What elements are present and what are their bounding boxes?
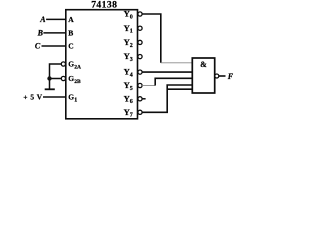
svg-text:2: 2 — [130, 43, 133, 49]
wire Y7 step to gate — [142, 85, 192, 112]
svg-text:0: 0 — [130, 14, 133, 20]
wire G2B to junction — [50, 78, 62, 80]
wire Y4 to gate — [142, 71, 192, 73]
wire A — [46, 18, 66, 20]
NAND gate U2 body — [192, 58, 214, 93]
svg-text:&: & — [200, 60, 207, 69]
wire Y0 to gate vertical — [142, 14, 161, 63]
pin Y6 bubble — [138, 97, 142, 101]
wire junction to ground — [49, 79, 51, 89]
svg-text:1: 1 — [130, 29, 133, 35]
svg-text:2B: 2B — [74, 79, 81, 85]
svg-text:1: 1 — [74, 97, 77, 103]
wire Y5 jog to gate — [155, 78, 192, 85]
svg-text:4: 4 — [130, 73, 133, 79]
pin Y7 bubble — [138, 110, 142, 114]
gate output bubble — [215, 74, 219, 78]
svg-text:74138: 74138 — [91, 0, 117, 11]
pin Y0 bubble — [138, 12, 142, 16]
pin G2B bubble — [61, 76, 65, 80]
wire G2A to junction — [50, 64, 62, 79]
stub Y6 — [142, 98, 146, 100]
svg-text:A: A — [39, 15, 46, 24]
ground bar — [45, 88, 55, 90]
svg-text:5: 5 — [130, 86, 133, 92]
wire Y0 thin tail to gate — [161, 62, 193, 64]
pin Y1 bubble — [138, 26, 142, 30]
svg-text:2A: 2A — [74, 64, 81, 70]
svg-text:B: B — [37, 28, 44, 37]
svg-text:C: C — [68, 42, 73, 51]
svg-text:B: B — [68, 29, 73, 38]
wire +5V to G1 — [43, 96, 66, 98]
svg-text:C: C — [35, 42, 41, 51]
wire Y7 branch to gate — [167, 88, 192, 90]
svg-text:A: A — [68, 15, 74, 24]
wire C — [42, 45, 66, 47]
svg-text:F: F — [227, 72, 234, 81]
wire gate output to F — [219, 75, 226, 77]
svg-text:3: 3 — [130, 57, 133, 63]
svg-text:6: 6 — [130, 99, 133, 105]
pin G2A bubble — [61, 62, 65, 66]
IC U1 74138 body — [66, 10, 138, 119]
pin Y5 bubble — [138, 83, 142, 87]
svg-text:7: 7 — [130, 113, 133, 119]
wire B — [43, 32, 65, 34]
pin Y4 bubble — [138, 70, 142, 74]
svg-text:+ 5 V: + 5 V — [23, 93, 42, 102]
junction dot — [47, 76, 51, 80]
pin Y2 bubble — [138, 40, 142, 44]
pin Y3 bubble — [138, 55, 142, 59]
wire Y5 thin tail — [142, 85, 155, 87]
